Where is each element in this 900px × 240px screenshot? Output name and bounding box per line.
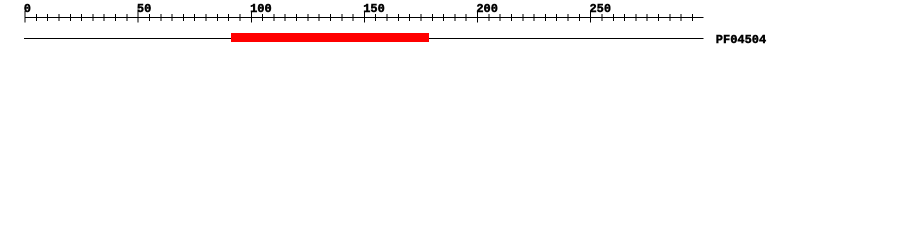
svg-text:250: 250 [589, 2, 611, 16]
ruler major tick 50 [138, 11, 139, 23]
ruler major tick 250 [590, 11, 591, 23]
ruler major tick 0 [25, 11, 26, 23]
svg-text:150: 150 [363, 2, 385, 16]
ruler major tick 100 [251, 11, 252, 23]
svg-text:100: 100 [250, 2, 272, 16]
ruler major tick 150 [364, 11, 365, 23]
domain box PF04504 [231, 33, 429, 42]
ruler major tick 200 [477, 11, 478, 23]
ruler baseline [25, 17, 704, 18]
svg-text:0: 0 [24, 2, 31, 16]
sequence line [24, 38, 704, 39]
svg-text:200: 200 [476, 2, 498, 16]
background [0, 0, 900, 58]
svg-text:PF04504: PF04504 [716, 33, 766, 47]
svg-text:50: 50 [137, 2, 151, 16]
ruler minor ticks [36, 14, 693, 21]
